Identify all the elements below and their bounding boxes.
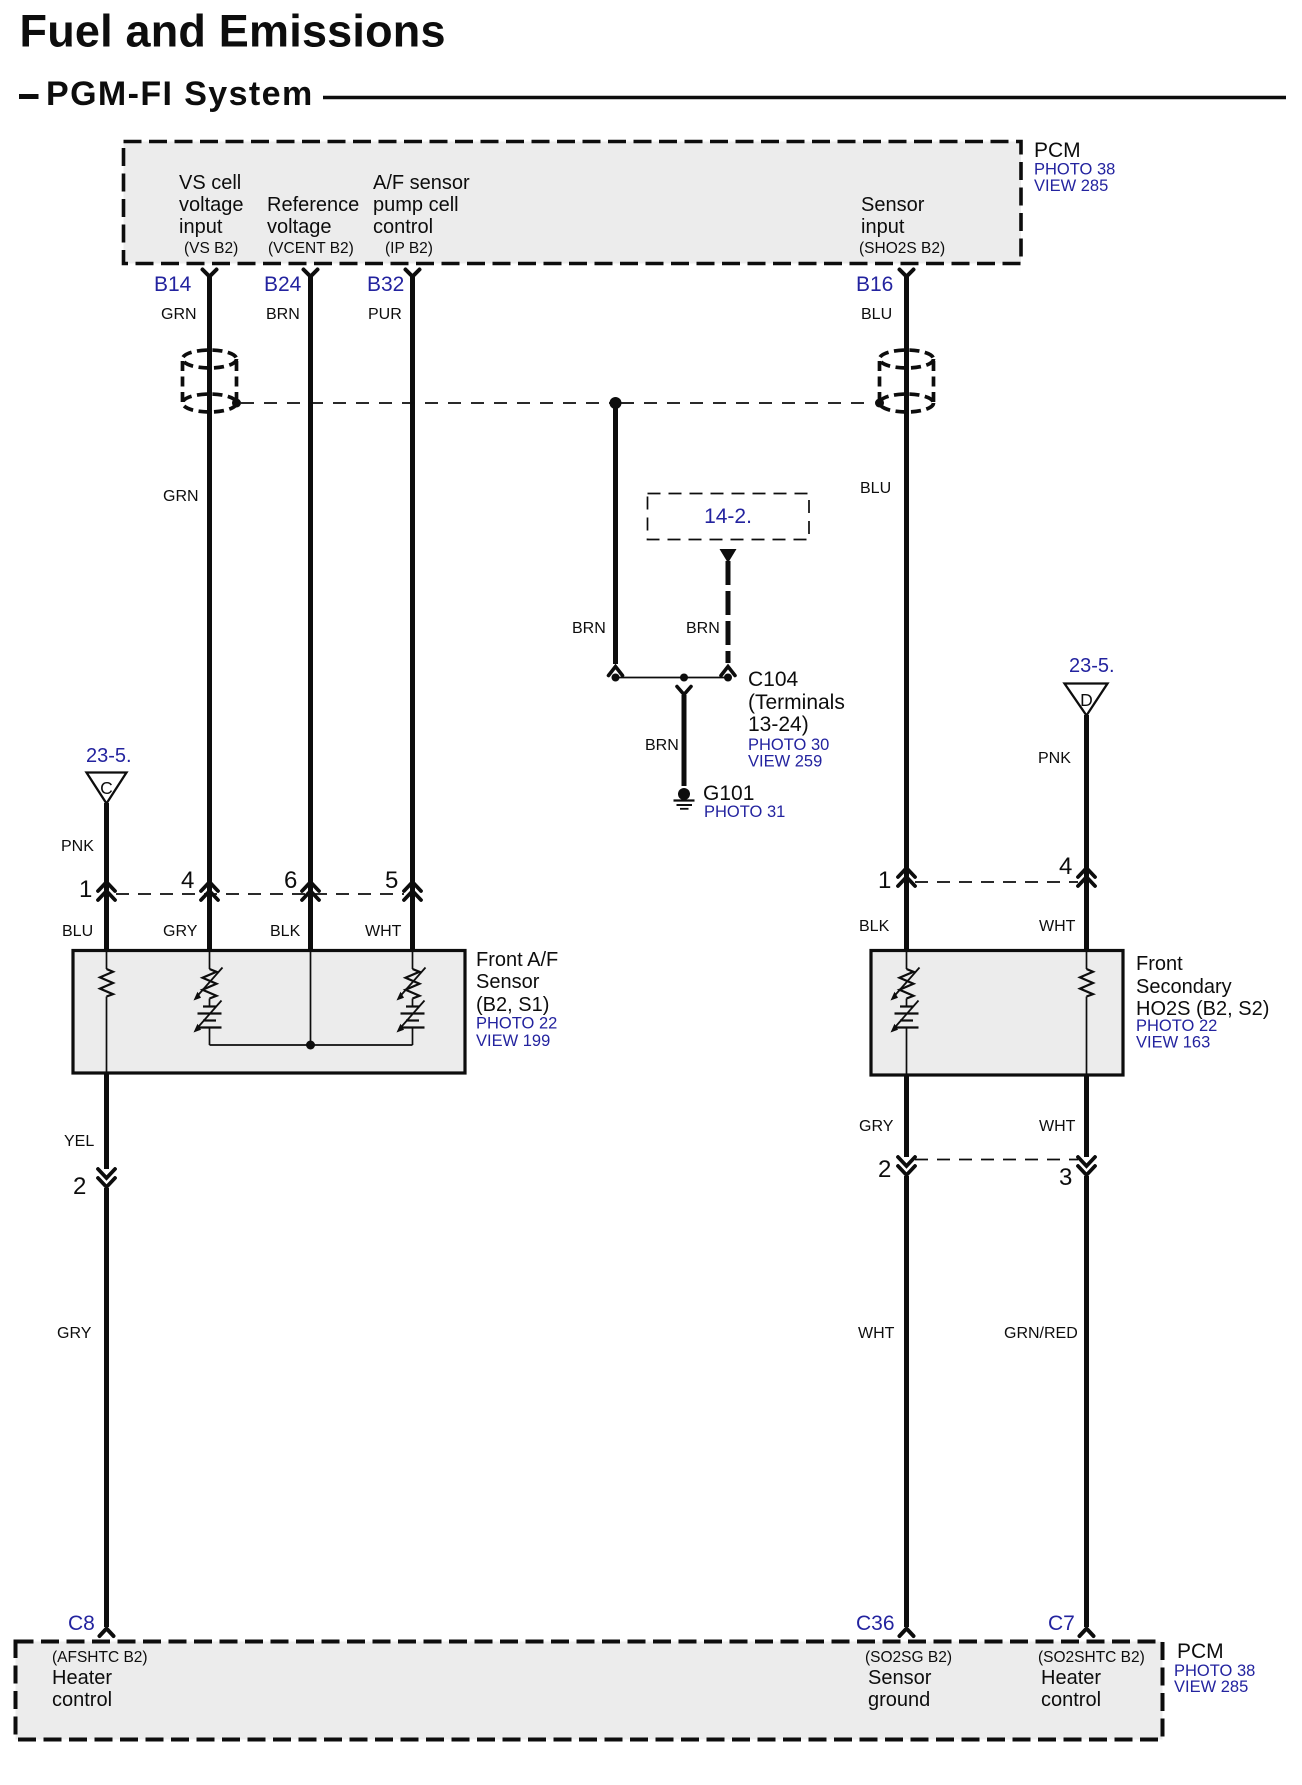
svg-text:(VCENT B2): (VCENT B2) (268, 240, 354, 257)
wire GRN/RED below junction right (1084, 1176, 1089, 1627)
junction chevrons down left2 (98, 1169, 115, 1187)
svg-text:Secondary: Secondary (1136, 976, 1232, 998)
svg-text:WHT: WHT (1039, 918, 1076, 935)
svg-text:(IP B2): (IP B2) (385, 240, 433, 257)
svg-text:PUR: PUR (368, 306, 402, 323)
svg-text:voltage: voltage (179, 194, 244, 216)
svg-text:Front A/F: Front A/F (476, 949, 558, 971)
PCM bottom pin label SO2SG (865, 1649, 952, 1711)
pin Y-connector at C7 (1080, 1629, 1094, 1637)
svg-text:WHT: WHT (858, 1325, 895, 1342)
arrowhead cell pin4 (194, 1024, 202, 1033)
variable resistor + cell in HO2S (893, 952, 920, 1074)
Front Secondary HO2S label (1136, 953, 1269, 1052)
Front A/F Sensor box (73, 951, 465, 1074)
svg-text:1: 1 (79, 876, 92, 903)
svg-text:(AFSHTC B2): (AFSHTC B2) (52, 1649, 148, 1666)
svg-text:BRN: BRN (266, 306, 300, 323)
wire BRN shield drain vertical (613, 403, 618, 664)
svg-text:(SO2SHTC B2): (SO2SHTC B2) (1038, 1649, 1145, 1666)
PCM top box pin label: VS cell voltage input (VS B2) (179, 172, 244, 257)
dashed junction line right bottom (915, 1159, 1078, 1161)
svg-text:Heater: Heater (1041, 1667, 1101, 1689)
svg-text:GRY: GRY (859, 1118, 894, 1135)
svg-text:VIEW 285: VIEW 285 (1174, 1678, 1248, 1696)
svg-text:BRN: BRN (645, 737, 679, 754)
wire B32 PUR vertical (410, 275, 415, 950)
svg-text:Sensor: Sensor (861, 194, 925, 216)
connector D triangle (1065, 684, 1108, 716)
shield symbol on BLU wire (880, 350, 934, 412)
svg-text:control: control (1041, 1689, 1101, 1711)
PCM top box pin label: Reference voltage (VCENT B2) (267, 194, 359, 257)
wire GRY below HO2S left (904, 1075, 909, 1157)
svg-text:C36: C36 (856, 1612, 895, 1635)
PCM top box pin label: A/F sensor pump cell control (IP B2) (373, 172, 470, 257)
variable resistor + cell on pin4 wire (196, 952, 223, 1045)
svg-text:4: 4 (1059, 853, 1072, 880)
svg-text:(VS B2): (VS B2) (184, 240, 238, 257)
svg-text:PHOTO 22: PHOTO 22 (476, 1015, 557, 1033)
svg-text:BLK: BLK (270, 923, 301, 940)
internal bus line bottom (210, 1044, 413, 1046)
dashed junction line right top (915, 881, 1078, 883)
shield drain dot right (875, 399, 884, 408)
dashed wire BRN from 14-2 (726, 561, 731, 663)
PCM top box pin label: Sensor input (SHO2S B2) (859, 194, 945, 257)
resistor heater in HO2S (1080, 952, 1093, 1074)
connector cup below C104 (677, 687, 691, 695)
shield drain dot left (232, 399, 241, 408)
svg-text:PHOTO 22: PHOTO 22 (1136, 1017, 1217, 1035)
subtitle dash (19, 94, 39, 99)
ground G101 (674, 788, 695, 809)
svg-text:YEL: YEL (64, 1133, 94, 1150)
PCM bottom pin label AFSHTC (52, 1649, 148, 1711)
arrowhead cell HO2S (891, 1024, 899, 1033)
wire BRN to ground (682, 695, 687, 786)
junction chevrons wire1 (98, 882, 115, 900)
svg-text:BLU: BLU (62, 923, 93, 940)
wire WHT below junction right (904, 1176, 909, 1627)
arrowhead var resistor HO2S (891, 992, 899, 1001)
junction chevrons wire5 (404, 882, 421, 900)
svg-text:G101: G101 (703, 782, 754, 805)
svg-text:C104: C104 (748, 668, 799, 691)
svg-text:GRN: GRN (163, 488, 199, 505)
svg-text:GRY: GRY (163, 923, 198, 940)
dashed shield link line (241, 402, 874, 404)
svg-text:BRN: BRN (572, 620, 606, 637)
svg-text:Reference: Reference (267, 194, 359, 216)
connector C104 label (748, 668, 845, 771)
svg-text:ground: ground (868, 1689, 930, 1711)
svg-text:C: C (100, 778, 113, 798)
wire B14 GRN vertical (207, 275, 212, 950)
svg-text:VS cell: VS cell (179, 172, 241, 194)
shield symbol on GRN wire (183, 350, 237, 412)
wire PNK from C (104, 803, 109, 950)
svg-text:GRN: GRN (161, 306, 197, 323)
svg-text:BRN: BRN (686, 620, 720, 637)
svg-text:Sensor: Sensor (476, 971, 540, 993)
svg-text:B14: B14 (154, 273, 192, 296)
svg-text:Front: Front (1136, 953, 1183, 975)
svg-text:WHT: WHT (1039, 1118, 1076, 1135)
svg-text:23-5.: 23-5. (86, 745, 132, 767)
svg-text:Heater: Heater (52, 1667, 112, 1689)
resistor R1 in A/F sensor (heater) (100, 952, 113, 1072)
variable resistor + cell on pin5 wire (399, 952, 426, 1045)
svg-text:GRN/RED: GRN/RED (1004, 1325, 1078, 1342)
svg-text:2: 2 (878, 1156, 891, 1183)
dashed ref box 14-2. (648, 494, 810, 540)
PCM bottom box (dashed) (16, 1642, 1163, 1740)
svg-text:3: 3 (1059, 1164, 1072, 1191)
svg-text:B16: B16 (856, 273, 893, 296)
svg-text:Sensor: Sensor (868, 1667, 932, 1689)
wire PNK from D (1084, 715, 1089, 950)
svg-text:C8: C8 (68, 1612, 95, 1635)
Front A/F Sensor label (476, 949, 558, 1050)
svg-text:D: D (1080, 690, 1093, 710)
svg-text:4: 4 (181, 867, 194, 894)
svg-text:(SHO2S B2): (SHO2S B2) (859, 240, 945, 257)
svg-text:(Terminals: (Terminals (748, 691, 845, 714)
svg-text:PCM: PCM (1177, 1640, 1224, 1663)
PCM label bottom right (1174, 1640, 1255, 1696)
junction chevrons wire6 (302, 882, 319, 900)
node dot left (612, 674, 620, 682)
arrowhead cell pin5 (397, 1024, 405, 1033)
svg-text:C7: C7 (1048, 1612, 1075, 1635)
junction chevrons down right3 (1078, 1157, 1095, 1175)
node dot right (724, 674, 732, 682)
svg-text:B24: B24 (264, 273, 302, 296)
svg-text:(B2, S1): (B2, S1) (476, 994, 549, 1016)
arrowhead var resistor pin5 (397, 992, 405, 1001)
svg-text:PHOTO 31: PHOTO 31 (704, 803, 785, 821)
svg-text:BLU: BLU (861, 306, 892, 323)
svg-text:1: 1 (878, 867, 891, 894)
pin Y-connector at C36 (900, 1629, 914, 1637)
connector C triangle (87, 773, 127, 804)
svg-text:PCM: PCM (1034, 139, 1081, 162)
svg-text:6: 6 (284, 867, 297, 894)
wire WHT below HO2S right (1084, 1075, 1089, 1157)
svg-text:PNK: PNK (1038, 750, 1071, 767)
junction bus line C104 (614, 677, 729, 679)
pin Y-connector at B24 (304, 270, 318, 277)
node: shield junction dot (610, 397, 622, 409)
svg-text:BLU: BLU (860, 480, 891, 497)
junction chevrons down right2 (898, 1157, 915, 1175)
header rule line (323, 96, 1286, 100)
wire B24 BRN vertical (308, 275, 313, 950)
svg-text:5: 5 (385, 867, 398, 894)
node dot middle (680, 674, 688, 682)
svg-text:pump cell: pump cell (373, 194, 459, 216)
wire GRY below junction left (104, 1188, 109, 1627)
svg-text:VIEW 285: VIEW 285 (1034, 177, 1108, 195)
node dot internal (306, 1041, 315, 1050)
svg-text:WHT: WHT (365, 923, 402, 940)
wire B16 BLU vertical (904, 275, 909, 950)
svg-text:input: input (179, 216, 223, 238)
svg-text:Fuel and Emissions: Fuel and Emissions (20, 6, 446, 57)
pin Y-connector at B16 (900, 270, 914, 277)
svg-text:14-2.: 14-2. (704, 505, 752, 528)
pin Y-connector at C8 (100, 1629, 114, 1637)
junction chevrons right wire4 (1078, 868, 1095, 886)
svg-text:23-5.: 23-5. (1069, 655, 1115, 677)
svg-text:13-24): 13-24) (748, 713, 809, 736)
Front Secondary HO2S box (871, 951, 1123, 1076)
svg-text:(SO2SG B2): (SO2SG B2) (865, 1649, 952, 1666)
connector caret at dashed wire end (721, 667, 735, 676)
svg-text:control: control (52, 1689, 112, 1711)
svg-text:control: control (373, 216, 433, 238)
svg-text:VIEW 259: VIEW 259 (748, 753, 822, 771)
svg-text:PHOTO 38: PHOTO 38 (1034, 161, 1115, 179)
svg-text:PNK: PNK (61, 838, 94, 855)
svg-text:GRY: GRY (57, 1325, 92, 1342)
svg-text:B32: B32 (367, 273, 404, 296)
svg-text:BLK: BLK (859, 918, 890, 935)
PCM top box (dashed) (124, 142, 1022, 264)
svg-text:input: input (861, 216, 905, 238)
pin Y-connector at B14 (203, 270, 217, 277)
svg-text:A/F sensor: A/F sensor (373, 172, 470, 194)
arrowhead var resistor pin4 (194, 992, 202, 1001)
connector caret at drain wire end (609, 667, 623, 676)
wire pin6 inside box (310, 952, 312, 1045)
dashed junction line left (116, 893, 404, 895)
ground G101 label (703, 782, 785, 821)
arrowhead from 14-2 (720, 549, 737, 563)
svg-text:PHOTO 30: PHOTO 30 (748, 736, 829, 754)
svg-text:voltage: voltage (267, 216, 332, 238)
wire YEL below A/F sensor (104, 1073, 109, 1169)
svg-text:PGM-FI System: PGM-FI System (46, 75, 314, 113)
svg-text:2: 2 (73, 1173, 86, 1200)
PCM label top right (1034, 139, 1115, 195)
PCM bottom pin label SO2SHTC (1038, 1649, 1145, 1711)
junction chevrons right wire1 (898, 868, 915, 886)
svg-text:VIEW 199: VIEW 199 (476, 1032, 550, 1050)
svg-text:VIEW 163: VIEW 163 (1136, 1034, 1210, 1052)
pin Y-connector at B32 (406, 270, 420, 277)
junction chevrons wire4 (201, 882, 218, 900)
